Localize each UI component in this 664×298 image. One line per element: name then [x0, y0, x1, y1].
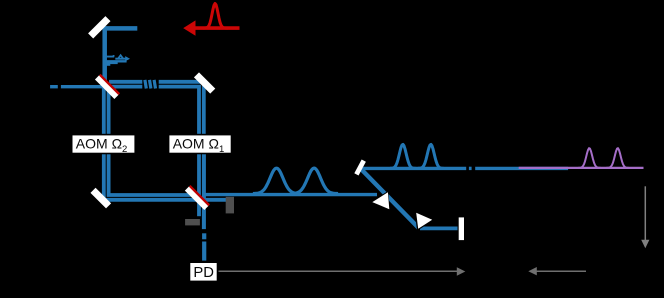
mirror M2 top-right — [194, 72, 215, 93]
wire: upper beam from M4 rightwards (with break) — [363, 167, 466, 170]
red input pulse — [203, 4, 228, 29]
prism T1 (white triangle pointing left) — [370, 191, 390, 211]
AOM Omega1 box — [169, 135, 232, 154]
red input arrowhead — [183, 20, 195, 35]
wire: diagonal beam M4 down to prism T2 — [361, 169, 419, 228]
beam block gray A (right of BS2) — [226, 197, 234, 214]
node: gaussian pulse 2 on upper beam — [418, 144, 444, 168]
wire: purple delayed beam line — [519, 167, 644, 169]
beam dump bar — [459, 217, 464, 240]
node: purple gaussian pulse 1 — [578, 148, 601, 168]
wire: beam from mirror M1 corner down to BS1 (vertical) and right (horizontal top) — [105, 28, 138, 88]
beam block gray B (below BS2 left line) — [185, 219, 200, 225]
node: chirped pulse sketch on vertical beam — [104, 55, 126, 65]
wire: gray vertical arrow at far right — [644, 186, 646, 241]
wire: input stub into BS1 — [61, 85, 104, 88]
red input arrow shaft — [195, 26, 240, 30]
photodiode PD box — [189, 262, 217, 281]
wire: right limb verticals AOM1 down through BS2 — [197, 153, 201, 216]
node: break hash on top limb (black gap + slanted blue bars) — [142, 79, 158, 89]
node: gaussian pulse 1 on lower beam — [253, 168, 300, 193]
wire: dash + segment down to PD — [202, 233, 206, 239]
beamsplitter BS2 (white with red edge) — [185, 185, 210, 210]
wire: double horizontal beam BS1 to M2, outer line — [109, 82, 204, 135]
node: gaussian pulse 2 on lower beam — [291, 168, 338, 194]
svg-text:PD: PD — [193, 265, 214, 281]
wire: BS2 right output lower blocked line — [203, 198, 227, 202]
mirror M4 small pickoff — [354, 159, 366, 175]
node: purple gaussian pulse 2 — [606, 148, 629, 168]
wire: beam from T2 to beam dump — [420, 227, 458, 231]
node: arrowhead of pulse sketch — [125, 56, 130, 61]
node: gaussian pulse 1 on upper beam — [390, 144, 416, 168]
mirror M1 top-left — [88, 16, 110, 38]
wire: left limb inner: AOM2 down, turn right at M3 toward BS2 — [109, 153, 200, 195]
wire: double horizontal beam BS1 to M2, inner line — [109, 87, 199, 135]
beamsplitter BS1 (white with red edge) — [95, 74, 120, 99]
wire: left limb outer: AOM2 down, turn right at M3 — [104, 153, 200, 200]
wire: gray RF line from PD with right arrow — [218, 270, 458, 272]
prism T2 (white triangle pointing right) — [415, 211, 435, 231]
mirror M3 bottom-left — [90, 188, 111, 209]
wire: input stub dash left of BS1 — [50, 85, 58, 88]
AOM Omega2 box — [72, 135, 136, 154]
wire: BS2 right output single beam toward prism T1 — [203, 193, 377, 196]
wire: left limb verticals BS1 down to AOM2 — [102, 85, 106, 135]
wire: gray left-pointing arrow (bottom right) — [536, 270, 587, 272]
